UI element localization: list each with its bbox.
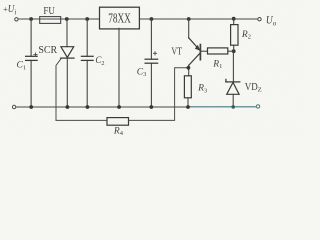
resistor R3 [184, 76, 191, 98]
label SCR [38, 45, 57, 56]
wire R4 branch left [56, 119, 107, 121]
paper texture [0, 0, 305, 142]
label VDz [245, 82, 262, 94]
node after fuse (SCR tap) [65, 17, 69, 21]
node VDz bottom [231, 105, 235, 109]
bottom rail left [16, 106, 190, 108]
wire R4 branch right to VT collector [129, 68, 189, 121]
node R3 bottom [186, 105, 190, 109]
wire top rail right [138, 18, 257, 20]
node VT emitter tap [187, 17, 191, 21]
terminal +Ui [15, 18, 18, 21]
node R1/R2/VDz junction [232, 49, 236, 53]
node C1 bottom [29, 105, 33, 109]
wire SCR anode [66, 19, 68, 47]
resistor R1 [208, 48, 228, 54]
wire SCR gate to R4 branch [56, 59, 61, 121]
capacitor C3 [145, 52, 158, 64]
transistor VT [189, 19, 201, 76]
node SCR cathode bottom [66, 105, 70, 109]
fuse FU [40, 17, 61, 24]
label R3 [197, 84, 207, 95]
label VT [171, 47, 182, 58]
node after terminal (C1 tap) [29, 17, 33, 21]
node C2 tap [85, 17, 89, 21]
label C3 [137, 67, 147, 78]
wire 78XX ground pin [118, 28, 120, 107]
label FU [43, 5, 55, 17]
node C3 bottom [149, 105, 153, 109]
wire R1 to node [229, 50, 234, 52]
wire C1 branch [30, 19, 32, 107]
label R1 [212, 59, 222, 70]
wire VT base to R1 [200, 50, 207, 52]
capacitor C2 [81, 56, 93, 60]
bottom rail right (teal) [190, 106, 256, 108]
regulator U1 78XX box [100, 7, 140, 29]
wire C2 branch [86, 19, 88, 107]
node C2 bottom [86, 105, 90, 109]
zener diode VDz [226, 79, 240, 107]
label Uo [266, 14, 277, 27]
label C1 [17, 61, 27, 72]
node 78XX ground [117, 105, 121, 109]
node C3 tap [150, 17, 154, 21]
label C2 [95, 55, 104, 67]
node VT collector / R3 / R4 junction [187, 66, 191, 70]
wire node to zener [232, 51, 234, 82]
terminal bottom right [256, 105, 259, 108]
wire R3 to bottom rail [187, 98, 189, 107]
wire top rail left [18, 18, 99, 20]
terminal bottom left [12, 105, 15, 108]
terminal Uo [258, 18, 261, 21]
node R2 tap [232, 17, 236, 21]
label +Ui [3, 3, 16, 16]
resistor R2 [231, 19, 238, 51]
resistor R4 [107, 118, 129, 126]
label R4 [113, 126, 124, 137]
label R2 [241, 30, 251, 41]
wire C3 branch [150, 19, 152, 107]
SCR thyristor [61, 47, 74, 107]
capacitor C1 [26, 53, 37, 60]
